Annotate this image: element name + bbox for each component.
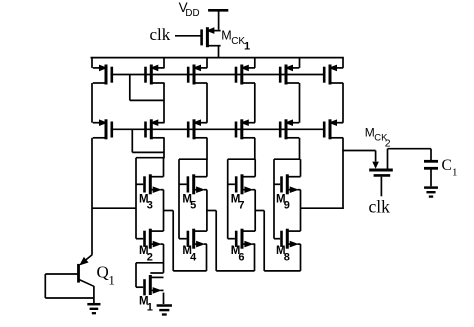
wire rail drop col2 [163,58,165,68]
wire clk to MCK1 gate [175,35,201,37]
svg-text:DD: DD [185,8,199,19]
label VDD [179,0,200,19]
wire branch1 top [136,157,164,159]
svg-text:1: 1 [244,40,250,52]
transistor Q1 emitter [79,255,92,266]
wire M1 gate loop [136,263,164,287]
wire M5 drain up [206,159,208,177]
label M4 [182,245,197,263]
ground below M1 [157,306,172,315]
label clk (bottom) [369,196,391,216]
svg-text:clk: clk [150,25,171,44]
ground below Q1 [87,304,100,313]
wire branch3 top [228,158,255,160]
svg-text:clk: clk [369,196,391,216]
label C1 [442,157,458,179]
transistor M3 [136,174,164,194]
svg-text:Q: Q [97,263,109,282]
svg-text:1: 1 [452,167,458,179]
label M2 [139,245,153,263]
svg-text:M: M [221,29,231,43]
wire rail drop col5 [299,58,301,68]
wire branch3 gate bus [227,159,229,239]
wire branch1 gate bus [135,158,137,239]
wire col3 row2 to branch2 [206,138,208,160]
transistor M2 [136,229,164,249]
wire rail drop col3 [206,58,208,68]
transistor row1 P6 [324,65,343,85]
transistor M6 [228,229,256,249]
transistor MCK2 [369,151,393,197]
label M6 [231,245,245,263]
transistor row2 P1 [93,119,112,139]
transistor row1 P2 [146,65,165,85]
label M3 [139,193,153,211]
wire row1 diode loop [130,75,164,101]
wire C1 bottom lead [430,168,432,186]
wire M4 return loop [164,211,207,271]
wire MCK1 drain to rail [218,46,220,59]
wire M8 return loop [255,211,301,271]
label M7 [231,193,245,211]
wire M9 drain up [300,159,302,177]
svg-text:1: 1 [108,272,115,287]
transistor M8 [274,229,301,249]
wire MCK2 input [342,150,375,152]
svg-text:6: 6 [238,251,244,263]
wire M9 source down [300,190,302,231]
label MCK1 [221,29,250,53]
transistor row1 P5 [280,65,299,85]
wire rail drop col4 [254,58,256,68]
label Q1 [97,263,115,288]
svg-text:4: 4 [190,251,197,263]
wire branch2 top [179,158,207,160]
svg-text:M: M [365,125,375,139]
wire M7 source down [254,190,256,231]
wire M3 drain up [163,158,165,177]
wire col6 row1-row2 [342,83,344,123]
wire M5 source down [206,190,208,231]
svg-text:2: 2 [147,251,153,263]
wire M1 drain lead [150,272,163,274]
transistor M1 [136,275,164,295]
svg-text:1: 1 [147,302,153,314]
wire col2 row2 to branch1 [163,138,165,159]
wire row2 diode loop [132,129,164,152]
transistor row2 P3 [188,119,207,139]
transistor row2 P6 [324,119,343,139]
svg-text:C: C [442,157,452,174]
transistor row1 P1 [93,65,112,85]
transistor Q1 collector [79,280,94,287]
wire col2 row1-row2 [163,83,165,123]
transistor M5 [179,174,207,194]
transistor row1 P4 [236,65,255,85]
label M9 [276,193,290,211]
wire output tap [301,207,344,209]
ground below C1 [424,188,438,197]
wire col6 row2 down [342,138,344,209]
power VDD symbol [208,10,228,29]
label M5 [182,193,196,211]
wire Q1 base loop [45,274,94,298]
wire Q1 collector down [93,286,95,304]
wire rail drop col6 [342,58,344,68]
wire col1 down to Q1 [91,138,93,255]
label clk (top) [150,25,171,44]
wire branch4 gate bus [273,159,275,239]
capacitor C1 [424,161,438,168]
wire col4 row2 to branch3 [254,138,256,160]
svg-text:8: 8 [284,251,290,263]
svg-text:7: 7 [238,200,244,212]
wire row1 gate bus [110,74,325,76]
wire branch4 top [274,158,300,160]
svg-text:2: 2 [385,137,391,149]
wire top rail [91,57,344,59]
svg-text:9: 9 [284,200,290,212]
transistor Q1 base bar [77,264,80,283]
wire branch2 gate bus [178,159,180,239]
wire MCK2 to C1 [388,148,432,150]
wire col5 row1-row2 [299,83,301,123]
wire rail drop col1 [91,58,93,68]
transistor row2 P4 [236,119,255,139]
wire row2 gate bus [110,128,325,130]
wire C1 top lead [430,149,432,160]
transistor row2 P2 [146,119,165,139]
transistor MCK1 [202,27,221,47]
wire M1 source down [163,293,165,304]
wire M6 return loop [207,211,255,271]
wire M3 source down [163,190,165,231]
svg-text:3: 3 [147,200,153,212]
svg-text:5: 5 [190,200,196,212]
wire M2 source to M1 drain [163,244,165,273]
transistor M9 [274,174,301,194]
wire col5 row2 to branch4 [299,138,301,160]
wire col4 row1-row2 [254,83,256,123]
transistor row2 P5 [280,119,299,139]
transistor M7 [228,174,256,194]
wire tap to branch1 gate bus [92,207,136,209]
transistor M4 [179,229,207,249]
wire MCK2 out up [387,149,389,170]
label MCK2 [365,125,391,149]
wire col3 row1-row2 [206,83,208,123]
transistor row1 P3 [188,65,207,85]
wire M7 drain up [254,159,256,177]
wire col1 row1-row2 [91,83,93,123]
label M1 [139,295,153,313]
label M8 [276,245,290,263]
